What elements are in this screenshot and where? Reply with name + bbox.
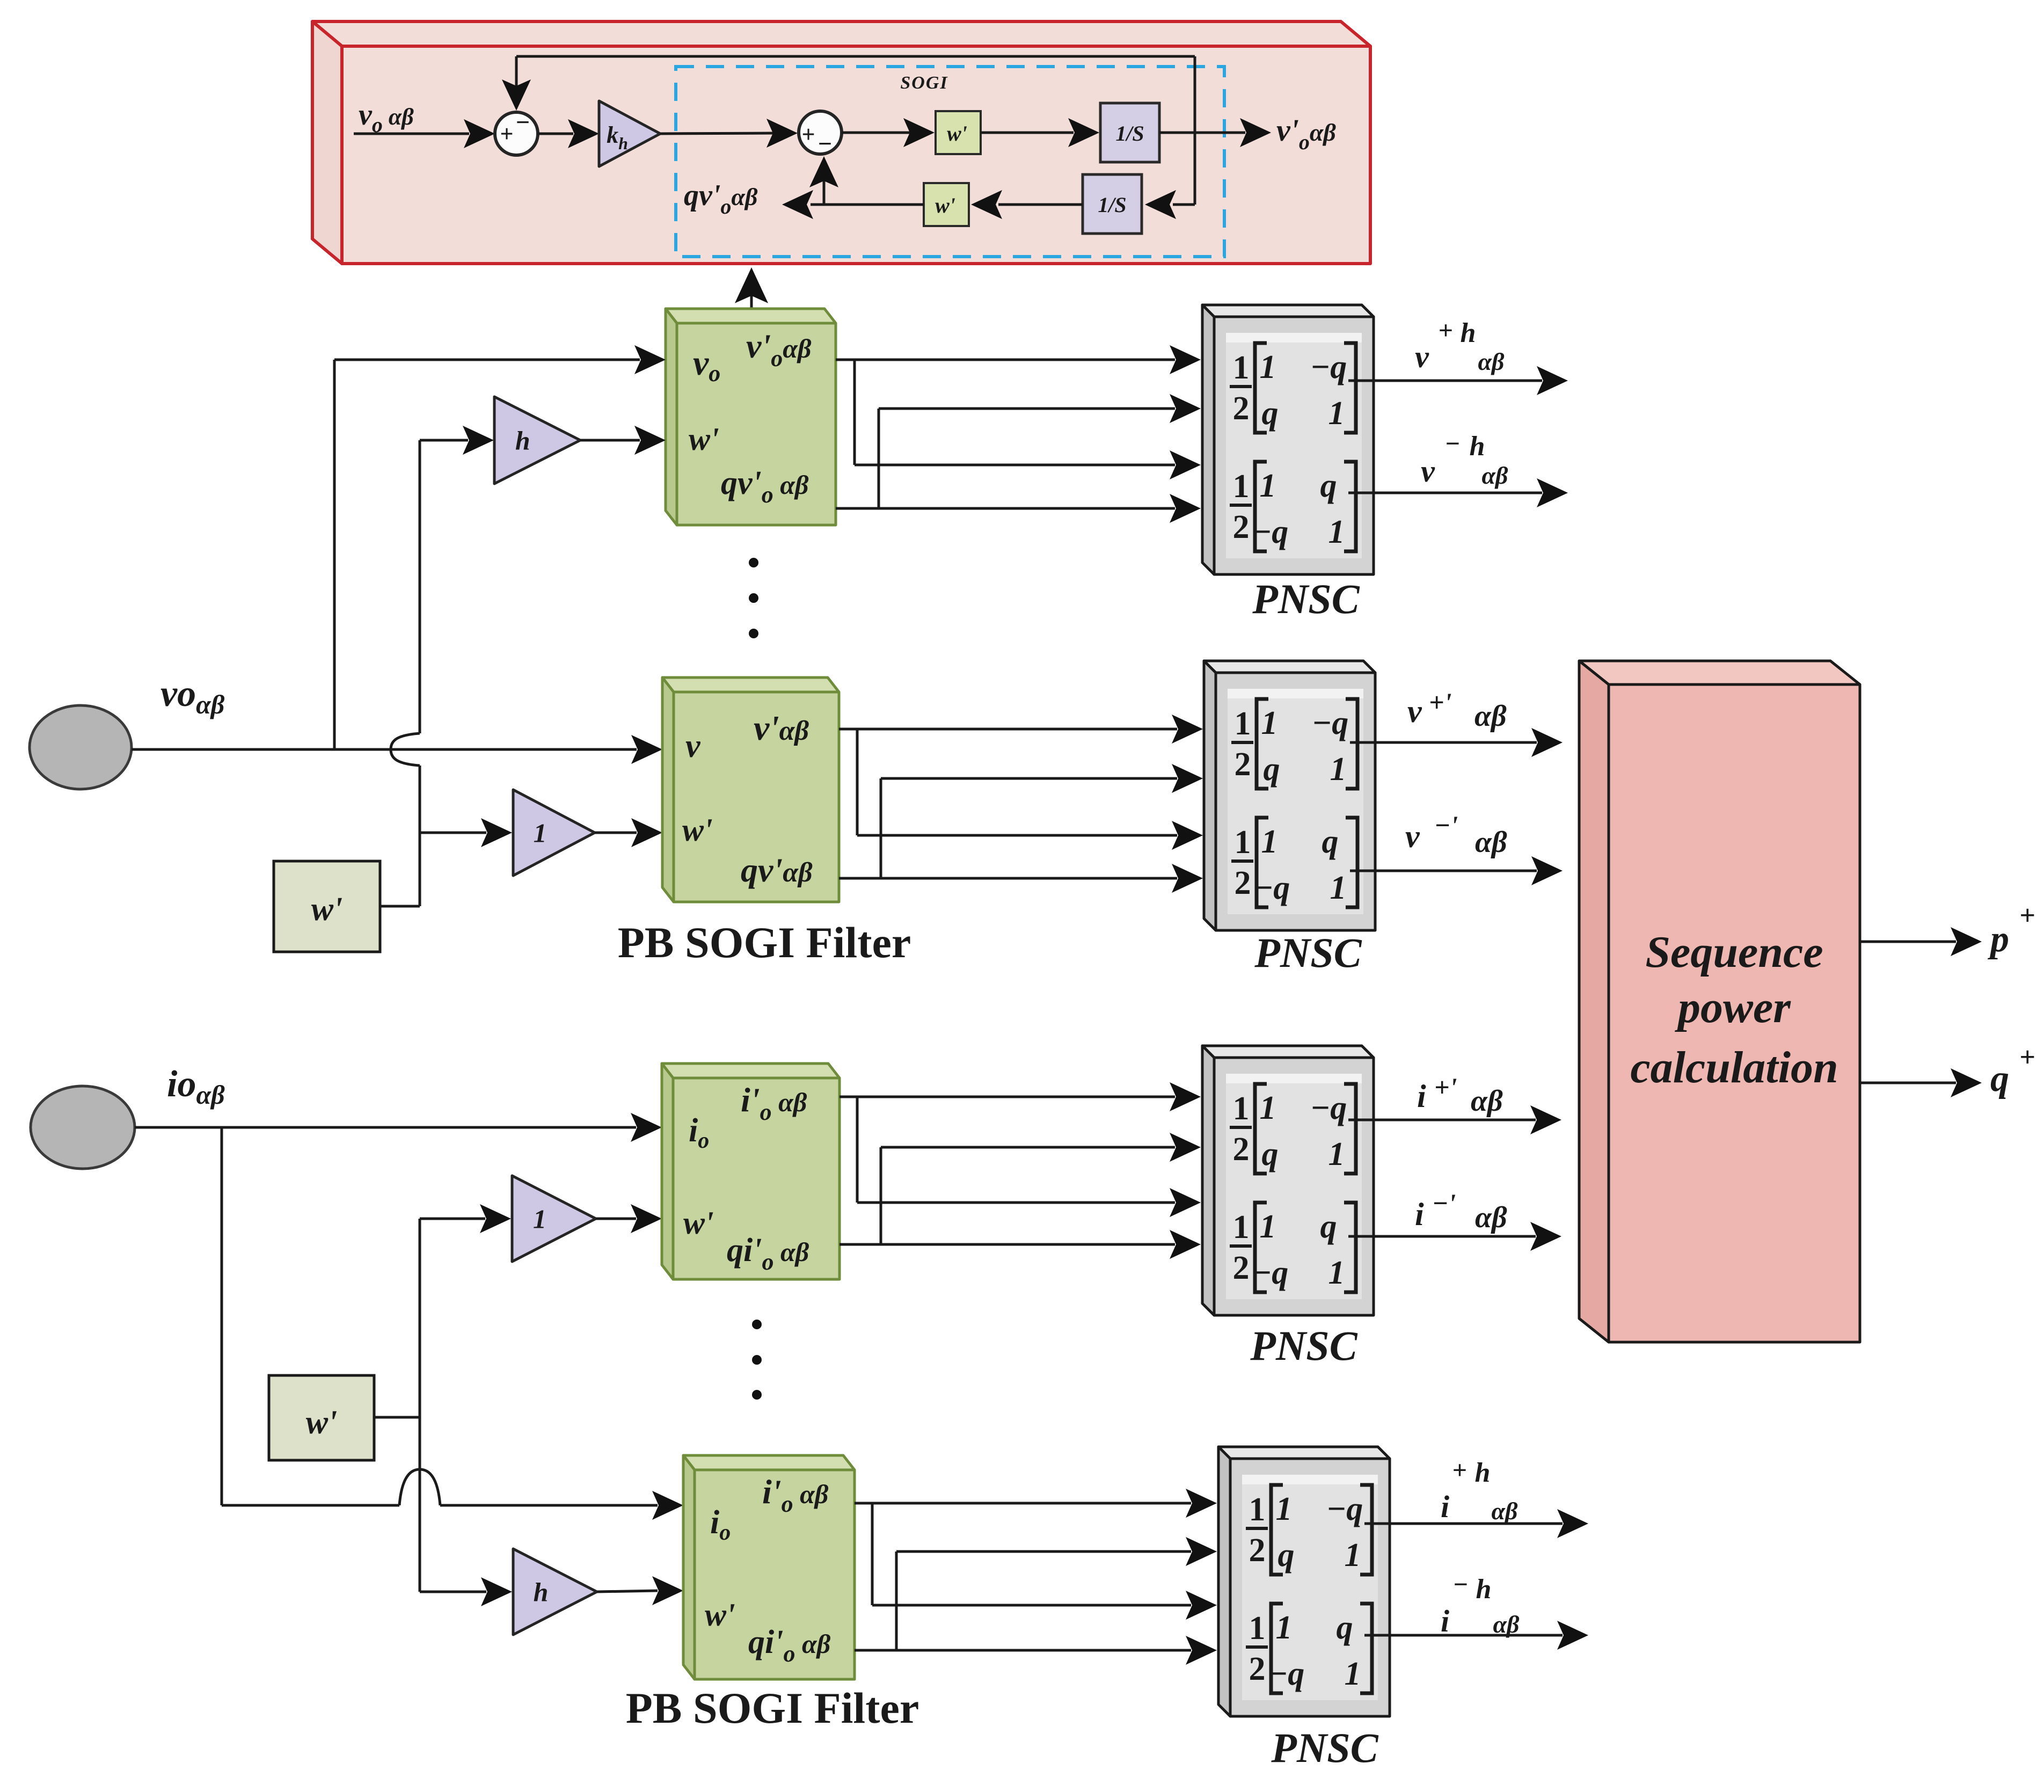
svg-text:−q: −q bbox=[1326, 1491, 1363, 1527]
svg-text:w': w' bbox=[306, 1404, 338, 1441]
svg-text:SOGI: SOGI bbox=[900, 73, 948, 93]
svg-text:1/S: 1/S bbox=[1098, 193, 1126, 217]
svg-text:1: 1 bbox=[1276, 1609, 1293, 1646]
svg-text:1: 1 bbox=[1330, 870, 1347, 906]
svg-text:q: q bbox=[1262, 395, 1279, 432]
svg-text:−': −' bbox=[1434, 810, 1458, 840]
svg-text:i: i bbox=[1441, 1489, 1449, 1524]
svg-text:w': w' bbox=[682, 812, 713, 848]
svg-text:+: + bbox=[2019, 900, 2035, 931]
svg-text:1: 1 bbox=[1328, 1136, 1345, 1172]
svg-text:+': +' bbox=[1434, 1072, 1457, 1102]
svg-text:w': w' bbox=[935, 193, 955, 217]
svg-text:1: 1 bbox=[1260, 1090, 1276, 1126]
svg-text:w': w' bbox=[689, 421, 719, 457]
svg-text:i: i bbox=[1417, 1079, 1426, 1114]
svg-text:+: + bbox=[1452, 1456, 1466, 1484]
svg-text:1/S: 1/S bbox=[1115, 121, 1144, 145]
svg-text:−: − bbox=[1444, 429, 1460, 458]
svg-text:1: 1 bbox=[1330, 751, 1347, 788]
svg-text:q: q bbox=[1322, 824, 1339, 860]
svg-text:1: 1 bbox=[1345, 1656, 1361, 1692]
svg-text:1: 1 bbox=[1276, 1491, 1293, 1527]
svg-text:v: v bbox=[685, 728, 701, 764]
svg-text:−: − bbox=[818, 130, 832, 157]
svg-text:1: 1 bbox=[1233, 1209, 1250, 1245]
svg-text:q: q bbox=[1320, 468, 1337, 504]
svg-text:1: 1 bbox=[1233, 1090, 1250, 1127]
svg-text:+: + bbox=[801, 121, 815, 148]
svg-text:1: 1 bbox=[534, 818, 547, 848]
svg-text:PNSC: PNSC bbox=[1254, 929, 1362, 976]
svg-text:−: − bbox=[1452, 1570, 1468, 1599]
svg-text:PNSC: PNSC bbox=[1250, 1322, 1357, 1369]
svg-text:1: 1 bbox=[1328, 514, 1345, 550]
svg-text:p: p bbox=[1988, 919, 2009, 960]
svg-text:αβ: αβ bbox=[1475, 1201, 1507, 1234]
svg-text:calculation: calculation bbox=[1630, 1043, 1838, 1092]
svg-text:2: 2 bbox=[1235, 746, 1251, 783]
svg-text:PNSC: PNSC bbox=[1252, 576, 1360, 622]
svg-text:Sequence: Sequence bbox=[1645, 927, 1823, 977]
svg-text:q: q bbox=[1320, 1208, 1337, 1245]
svg-text:h: h bbox=[1461, 318, 1476, 348]
svg-text:1: 1 bbox=[533, 1204, 546, 1234]
svg-text:w': w' bbox=[311, 891, 343, 928]
svg-text:αβ: αβ bbox=[1475, 826, 1507, 859]
svg-text:+: + bbox=[1438, 316, 1452, 345]
svg-text:h: h bbox=[534, 1577, 549, 1607]
svg-text:w': w' bbox=[947, 121, 967, 145]
svg-text:i: i bbox=[1415, 1197, 1424, 1232]
svg-text:αβ: αβ bbox=[1471, 1084, 1503, 1118]
svg-text:1: 1 bbox=[1249, 1491, 1266, 1528]
svg-text:2: 2 bbox=[1233, 390, 1250, 427]
svg-text:PB SOGI Filter: PB SOGI Filter bbox=[618, 918, 911, 967]
svg-text:h: h bbox=[1476, 1574, 1492, 1605]
svg-text:v: v bbox=[1421, 454, 1435, 489]
svg-text:2: 2 bbox=[1233, 1250, 1250, 1286]
svg-text:2: 2 bbox=[1249, 1651, 1266, 1687]
svg-text:−q: −q bbox=[1253, 870, 1290, 906]
svg-text:αβ: αβ bbox=[1474, 700, 1507, 733]
svg-text:−q: −q bbox=[1252, 1255, 1289, 1291]
svg-text:αβ: αβ bbox=[1493, 1611, 1519, 1638]
svg-text:q: q bbox=[1262, 1136, 1279, 1172]
svg-text:q: q bbox=[1990, 1058, 2009, 1099]
svg-text:−q: −q bbox=[1310, 1090, 1347, 1126]
svg-text:1: 1 bbox=[1260, 468, 1276, 504]
svg-text:1: 1 bbox=[1249, 1610, 1266, 1647]
svg-text:2: 2 bbox=[1235, 865, 1251, 901]
svg-text:−q: −q bbox=[1310, 349, 1347, 385]
svg-text:1: 1 bbox=[1235, 824, 1251, 861]
svg-text:αβ: αβ bbox=[1478, 348, 1504, 375]
svg-text:h: h bbox=[1475, 1458, 1491, 1488]
svg-text:αβ: αβ bbox=[1491, 1497, 1517, 1525]
svg-text:−q: −q bbox=[1252, 514, 1289, 550]
svg-text:v: v bbox=[1407, 694, 1422, 729]
svg-text:+: + bbox=[500, 121, 513, 147]
svg-text:−q: −q bbox=[1268, 1656, 1305, 1692]
svg-text:v: v bbox=[1415, 339, 1429, 374]
svg-text:1: 1 bbox=[1328, 1255, 1345, 1291]
svg-text:h: h bbox=[515, 426, 530, 456]
svg-text:1: 1 bbox=[1233, 468, 1250, 505]
svg-text:v: v bbox=[1405, 819, 1420, 854]
svg-text:−': −' bbox=[1432, 1188, 1456, 1218]
svg-text:w': w' bbox=[705, 1597, 735, 1633]
svg-text:1: 1 bbox=[1261, 705, 1278, 741]
svg-text:−q: −q bbox=[1312, 705, 1349, 741]
svg-text:1: 1 bbox=[1260, 1208, 1276, 1245]
svg-text:+': +' bbox=[1429, 687, 1451, 717]
svg-text:2: 2 bbox=[1233, 1131, 1250, 1168]
svg-text:PNSC: PNSC bbox=[1271, 1724, 1378, 1771]
svg-text:1: 1 bbox=[1233, 349, 1250, 386]
svg-text:q: q bbox=[1337, 1609, 1353, 1646]
svg-text:i: i bbox=[1441, 1604, 1449, 1638]
svg-text:1: 1 bbox=[1260, 349, 1276, 385]
svg-text:q: q bbox=[1278, 1537, 1295, 1574]
svg-text:+: + bbox=[2019, 1042, 2035, 1073]
svg-text:1: 1 bbox=[1235, 705, 1251, 742]
svg-text:q: q bbox=[1264, 751, 1280, 788]
svg-text:power: power bbox=[1675, 982, 1791, 1032]
svg-text:1: 1 bbox=[1345, 1537, 1361, 1574]
svg-text:1: 1 bbox=[1261, 824, 1278, 860]
svg-text:h: h bbox=[1470, 431, 1485, 462]
svg-text:2: 2 bbox=[1233, 509, 1250, 545]
svg-text:2: 2 bbox=[1249, 1532, 1266, 1569]
svg-text:1: 1 bbox=[1328, 395, 1345, 432]
svg-text:αβ: αβ bbox=[1481, 462, 1508, 489]
svg-text:w': w' bbox=[683, 1205, 714, 1241]
svg-text:−: − bbox=[516, 108, 530, 136]
svg-text:PB SOGI Filter: PB SOGI Filter bbox=[626, 1684, 919, 1732]
